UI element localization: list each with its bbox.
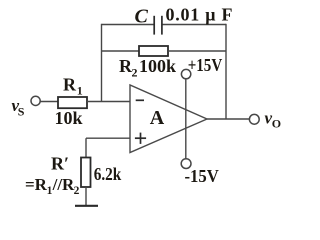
svg-text:100k: 100k — [139, 56, 176, 76]
wire output — [207, 118, 249, 120]
capacitor C1 plates — [154, 16, 162, 35]
svg-text:A: A — [150, 107, 165, 129]
terminal -15V circle — [181, 159, 191, 169]
svg-text:+15V: +15V — [188, 55, 223, 75]
svg-text:2: 2 — [74, 185, 80, 197]
wire positive supply through op-amp — [185, 79, 187, 159]
svg-text:0.01 μ F: 0.01 μ F — [166, 5, 233, 25]
svg-text:R′: R′ — [51, 154, 69, 174]
label =R1//R2 — [25, 175, 80, 197]
svg-text:2: 2 — [132, 66, 138, 80]
wire left feedback vertical — [101, 24, 103, 102]
wire R' to ground — [85, 187, 87, 206]
ground — [75, 205, 98, 207]
wire right feedback vertical — [225, 24, 227, 119]
resistor R2 body — [139, 46, 168, 56]
wire input to R1 — [40, 101, 58, 103]
svg-text:1: 1 — [77, 83, 83, 97]
wire down to R' — [85, 138, 87, 157]
svg-text:=R: =R — [25, 175, 48, 194]
label R1 — [63, 75, 83, 98]
resistor R1 body — [58, 97, 87, 108]
op-amp plus input mark — [135, 133, 146, 144]
terminal +15V circle — [181, 69, 190, 78]
output terminal vO circle — [249, 114, 259, 124]
svg-text:C: C — [135, 6, 149, 28]
svg-text:-15V: -15V — [185, 166, 219, 186]
input terminal vS circle — [31, 96, 40, 105]
wire R2 branch left — [102, 50, 140, 52]
wire R1 to inverting input — [87, 101, 130, 103]
svg-text:10k: 10k — [55, 108, 83, 128]
label vS — [12, 96, 25, 119]
svg-text:R: R — [63, 75, 77, 95]
wire top feedback (capacitor branch) — [102, 24, 227, 26]
svg-text://R: //R — [52, 175, 75, 194]
op-amp minus input mark — [136, 99, 144, 101]
wire noninverting input — [86, 137, 130, 139]
label R2 100k — [119, 56, 176, 80]
svg-text:6.2k: 6.2k — [94, 164, 122, 184]
resistor R' body — [81, 158, 91, 188]
label vO — [265, 109, 282, 131]
wire R2 branch right — [168, 50, 226, 52]
svg-text:O: O — [272, 117, 281, 131]
op-amp A triangle — [130, 85, 207, 153]
svg-text:S: S — [18, 105, 25, 119]
